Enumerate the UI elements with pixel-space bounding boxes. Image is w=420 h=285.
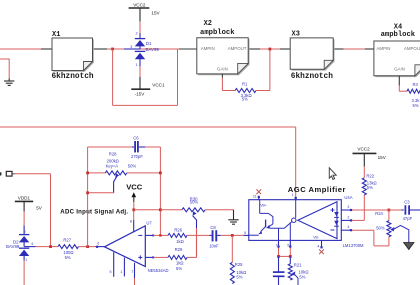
svg-text:5%: 5% [299,275,305,280]
svg-text:5%: 5% [242,97,248,102]
svg-text:C3: C3 [404,199,410,204]
svg-text:R28: R28 [109,151,117,156]
svg-text:U7: U7 [146,221,152,226]
svg-text:R1: R1 [242,82,248,87]
svg-text:1: 1 [136,63,138,67]
svg-text:2: 2 [24,230,26,234]
svg-text:8: 8 [244,231,246,235]
svg-text:-15V: -15V [135,91,146,96]
svg-text:5%: 5% [65,255,71,260]
svg-text:D1: D1 [146,41,152,46]
svg-text:ampblock: ampblock [200,29,235,37]
svg-text:AMPIN: AMPIN [201,46,215,51]
svg-text:10nF: 10nF [209,243,219,248]
svg-text:6: 6 [32,242,34,246]
svg-text:X1: X1 [52,31,60,39]
svg-text:3: 3 [130,45,132,49]
svg-text:47pF: 47pF [403,216,413,221]
svg-text:AMPOUT: AMPOUT [228,46,247,51]
svg-text:X3: X3 [292,31,300,39]
svg-text:R29: R29 [175,247,183,252]
svg-text:3: 3 [347,205,349,209]
svg-text:5%: 5% [413,103,419,108]
svg-text:R25: R25 [235,262,243,267]
svg-text:LM13700M: LM13700M [343,243,364,248]
svg-text:VCC2: VCC2 [357,146,370,151]
svg-text:BAV99: BAV99 [146,47,160,52]
svg-text:X2: X2 [204,20,212,28]
svg-text:7: 7 [276,244,278,248]
svg-text:1: 1 [120,270,122,274]
svg-text:AGC Amplifier: AGC Amplifier [288,185,346,194]
svg-text:VB-: VB- [313,236,319,240]
svg-text:50%: 50% [376,225,385,230]
svg-text:4: 4 [317,244,319,248]
svg-text:270pF: 270pF [131,154,143,159]
svg-text:R4: R4 [413,82,419,87]
svg-text:5%: 5% [176,266,182,271]
svg-text:VCC1: VCC1 [152,83,165,88]
svg-text:15V: 15V [151,11,160,16]
svg-text:6: 6 [97,242,99,246]
svg-text:5: 5 [110,270,112,274]
svg-text:8: 8 [130,219,132,223]
svg-text:50%: 50% [190,200,199,205]
svg-text:VCC: VCC [126,183,143,192]
svg-text:R21: R21 [294,263,302,268]
svg-text:C8: C8 [210,225,216,230]
svg-text:BAV99: BAV99 [6,244,20,249]
svg-text:50%: 50% [128,163,137,168]
svg-text:1: 1 [25,258,27,262]
svg-text:11: 11 [253,194,257,198]
svg-text:2: 2 [347,215,349,219]
svg-text:Key=A: Key=A [106,163,119,168]
svg-text:2: 2 [136,32,138,36]
svg-text:C6: C6 [133,136,139,141]
svg-text:5%: 5% [236,274,242,279]
svg-text:GAIN: GAIN [217,67,228,72]
svg-text:VCC2: VCC2 [133,2,146,7]
svg-text:AMPIN: AMPIN [377,46,391,51]
svg-text:R27: R27 [63,237,71,242]
svg-text:NE5534AD: NE5534AD [148,268,169,273]
svg-text:1kΩ: 1kΩ [176,239,184,244]
svg-text:4: 4 [347,225,349,229]
svg-text:AMPOU: AMPOU [404,46,420,51]
svg-text:R24: R24 [375,211,383,216]
svg-text:VB+: VB+ [260,203,267,207]
svg-text:U4A: U4A [344,195,352,200]
svg-text:VDD1: VDD1 [18,195,31,200]
svg-text:1kΩ: 1kΩ [176,260,184,265]
svg-text:6khznotch: 6khznotch [52,73,94,81]
svg-text:5%: 5% [367,185,373,190]
svg-text:ADC Input Signal Adj.: ADC Input Signal Adj. [60,209,128,216]
svg-text:5V: 5V [36,206,43,211]
svg-text:15V: 15V [378,155,387,160]
svg-text:GAIN: GAIN [394,66,405,71]
svg-text:R22: R22 [366,174,374,179]
svg-text:ampblock: ampblock [381,31,416,39]
svg-text:6khznotch: 6khznotch [291,73,333,81]
svg-text:R26: R26 [174,227,182,232]
svg-text:7: 7 [131,270,133,274]
svg-text:5: 5 [287,244,289,248]
